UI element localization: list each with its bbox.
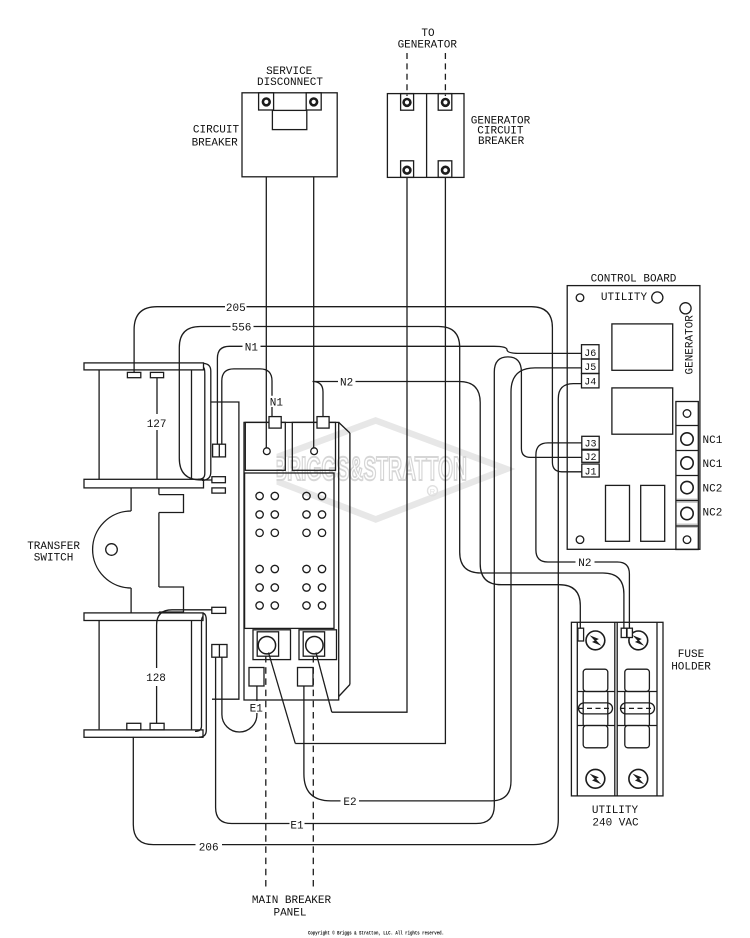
strip hole small top	[683, 410, 691, 418]
left rail line	[576, 622, 578, 796]
svg-text:206: 206	[199, 842, 219, 854]
svg-text:PANEL: PANEL	[273, 908, 306, 920]
terminal pocket left	[259, 93, 274, 110]
wire end terminal left fuse	[578, 628, 584, 641]
control board outline	[567, 286, 700, 550]
labels J6 J5 J4 J3 J2 J1	[584, 349, 596, 479]
svg-text:N2: N2	[578, 558, 591, 570]
dashed line from left lug to MAIN BREAKER PANEL	[265, 656, 267, 888]
diagonal wire right lug to gen breaker run	[316, 653, 332, 713]
wire from tab B down through 127 label	[156, 378, 158, 479]
wire service disconnect left to panel N1 circle	[265, 177, 267, 448]
svg-text:J4: J4	[584, 378, 596, 389]
svg-text:R: R	[430, 487, 436, 496]
generator circle	[680, 303, 691, 314]
wire N1 : fork to J6	[217, 346, 581, 444]
svg-text:J1: J1	[584, 467, 596, 478]
wire E1 U-loop : fork2 right leg to panel left E-stub	[222, 657, 257, 732]
coil128 shell outer	[199, 613, 206, 737]
E stub left	[249, 668, 264, 687]
svg-text:J6: J6	[584, 349, 596, 360]
dashed line from right lug to MAIN BREAKER PANEL	[312, 656, 314, 888]
fuse left window pill	[579, 703, 613, 714]
matrix holes	[256, 492, 326, 609]
svg-text:BRIGGS&STRATTON: BRIGGS&STRATTON	[273, 450, 467, 487]
TOPSECTION	[242, 53, 464, 177]
svg-text:TO: TO	[421, 28, 435, 40]
wire 205 : coil127 tabA to J1	[134, 307, 582, 472]
top block right	[292, 422, 335, 470]
gen circle TR	[442, 99, 449, 106]
svg-text:556: 556	[232, 323, 252, 335]
strip hole NC2 a	[681, 481, 693, 493]
coil 127 bottom flange	[84, 479, 204, 488]
terminal strip body	[676, 402, 698, 550]
J6 box	[582, 345, 600, 359]
screw top-left	[586, 631, 605, 650]
svg-text:HOLDER: HOLDER	[671, 662, 711, 674]
fuse left band bottom	[577, 725, 615, 727]
gen circle BL	[404, 167, 411, 174]
mount hole top-left	[576, 294, 584, 302]
J2 box	[582, 450, 599, 462]
coil 128 top flange	[84, 613, 203, 621]
svg-text:TRANSFER: TRANSFER	[27, 541, 80, 553]
screw bottom-left	[586, 769, 605, 788]
bottom rect 1	[606, 485, 630, 541]
wire N1 jumper : panel N1 stub to fork	[222, 369, 272, 444]
screw top-right	[629, 631, 648, 650]
top block left circle N1	[263, 448, 270, 455]
fuse left top cap	[583, 669, 608, 691]
coil 128 body	[99, 621, 191, 730]
pole semicircle	[93, 511, 132, 588]
top block left	[245, 422, 285, 470]
Briggs & Stratton watermark diamond ring	[245, 421, 506, 520]
wire gen breaker left terminal to right lug	[332, 177, 407, 712]
panel 3D top slant	[339, 422, 350, 433]
svg-text:CIRCUIT: CIRCUIT	[193, 125, 240, 137]
top block right circle N2	[311, 448, 318, 455]
gen pocket TL	[401, 94, 414, 111]
wire N2 : panel N2 stub to left fuse terminal	[313, 382, 581, 629]
coil 128 bottom tab A	[127, 723, 141, 730]
wire E2 : panel right E-stub to J5	[304, 368, 582, 801]
svg-text:N2: N2	[340, 378, 353, 390]
strip cell line 2	[676, 450, 698, 452]
pole step bottom	[159, 587, 184, 612]
lug circle right	[306, 637, 323, 654]
right rail line	[656, 622, 658, 796]
mount hole bottom-left	[576, 536, 584, 544]
svg-text:Copyright © Briggs & Stratton,: Copyright © Briggs & Stratton, LLC. All …	[308, 930, 444, 937]
wire service disconnect right to panel N2 circle	[313, 177, 315, 448]
gen circle TL	[404, 99, 411, 106]
lug box left outer	[253, 630, 291, 660]
FUSEHOLDER	[571, 622, 663, 796]
fuse holder outline	[571, 622, 663, 796]
svg-text:N1: N1	[245, 342, 259, 354]
svg-text:J5: J5	[584, 363, 596, 374]
coil 128 bottom flange	[84, 730, 203, 737]
svg-text:SWITCH: SWITCH	[34, 553, 74, 565]
svg-text:NC1: NC1	[703, 435, 723, 447]
svg-text:GENERATOR: GENERATOR	[398, 40, 458, 52]
J4 box	[582, 374, 600, 388]
diagonal wire left lug to gen breaker run	[269, 653, 296, 744]
wire dashed to generator (left)	[406, 53, 408, 96]
lug circle left	[258, 637, 275, 654]
WATERMARK	[245, 421, 506, 520]
coil 128 bottom tab B	[150, 723, 164, 730]
fuse right top cap	[625, 669, 650, 691]
fuse right window pill	[621, 703, 655, 714]
svg-text:FUSE: FUSE	[678, 649, 705, 661]
J3 box	[582, 436, 599, 449]
fork terminal top (double)	[213, 444, 226, 457]
panel 3D bottom slant	[339, 685, 350, 697]
generator circuit breaker box	[387, 94, 464, 178]
svg-text:UTILITY: UTILITY	[592, 805, 639, 817]
J1 box	[582, 464, 599, 477]
svg-text:E2: E2	[343, 797, 356, 809]
coil 128 side tab top	[212, 607, 226, 613]
wire dashed to generator (right)	[444, 53, 446, 96]
terminal circle right	[310, 99, 317, 106]
svg-text:E1: E1	[250, 703, 264, 715]
svg-text:MAIN BREAKER: MAIN BREAKER	[252, 895, 332, 907]
utility circle	[652, 292, 663, 303]
gen breaker divider	[426, 94, 428, 178]
wire 206 : coil128 tabA to J4	[133, 384, 581, 845]
fuse right band top	[617, 691, 657, 693]
strip cell gray band 1	[677, 499, 698, 504]
wire J3 to right fuse terminal b (N2 label)	[536, 443, 630, 628]
J5 box	[582, 359, 600, 374]
CONTROLBOARD	[567, 286, 700, 550]
fuse left band top	[577, 691, 615, 693]
terminal matrix box	[245, 473, 334, 628]
svg-text:205: 205	[226, 303, 246, 315]
coil128 shell inner	[195, 617, 203, 732]
strip hole NC1 b	[681, 457, 693, 469]
svg-text:BREAKER: BREAKER	[192, 138, 239, 150]
panel 3D back edge	[349, 433, 351, 685]
pole step top	[159, 495, 184, 513]
bottom rect 2	[641, 485, 665, 541]
PANEL	[244, 417, 350, 888]
fork terminal bottom (double)	[212, 645, 227, 658]
svg-text:BREAKER: BREAKER	[478, 136, 525, 148]
coil127 shell inner	[198, 367, 205, 479]
coil 127 top tab A	[127, 372, 140, 377]
strip cell line 1	[676, 425, 698, 427]
coil 127 side tab 1	[212, 477, 226, 483]
fuse right bottom cap	[625, 726, 650, 748]
svg-text:UTILITY: UTILITY	[601, 292, 648, 304]
relay 1	[612, 324, 673, 370]
svg-text:128: 128	[146, 673, 166, 685]
wire 556 : coil127 side tab1 to right fuse terminal a	[179, 327, 624, 629]
svg-text:NC2: NC2	[703, 484, 723, 496]
svg-text:NC1: NC1	[703, 459, 723, 471]
fuse right dashed center	[621, 707, 655, 709]
strip cell line 3	[676, 475, 698, 477]
divider rail line a	[614, 622, 616, 796]
strip cell gray band 2	[677, 524, 698, 529]
lug box left inner	[257, 632, 278, 656]
svg-text:127: 127	[147, 419, 167, 431]
svg-text:J2: J2	[584, 453, 596, 464]
loop wire around panel left	[211, 402, 239, 699]
coil 127 body	[99, 370, 191, 479]
watermark (R) mark	[428, 486, 438, 496]
panel outline	[244, 422, 339, 700]
fuse right band bottom	[617, 725, 657, 727]
strip hole small bottom	[683, 536, 691, 544]
terminal pocket right	[306, 93, 321, 110]
svg-text:J3: J3	[584, 440, 596, 451]
TRANSFERSWITCH	[84, 363, 226, 737]
wire end terminal right fuse b	[627, 628, 632, 637]
wire end terminal right fuse a	[621, 628, 626, 637]
svg-text:SERVICE: SERVICE	[266, 66, 313, 78]
divider rail line b	[616, 622, 618, 796]
center small rect	[272, 110, 306, 129]
E stub right	[298, 668, 314, 687]
coil127 shell outer	[202, 363, 211, 480]
svg-text:DISCONNECT: DISCONNECT	[257, 77, 323, 89]
gen pocket BL	[401, 161, 414, 178]
svg-text:GENERATOR: GENERATOR	[685, 315, 697, 375]
gen pocket TR	[438, 94, 452, 111]
lug box right outer	[299, 630, 337, 660]
svg-text:CONTROL BOARD: CONTROL BOARD	[591, 274, 677, 286]
N2 stub post	[317, 417, 329, 429]
strip hole NC1 a	[681, 433, 693, 445]
screw bottom-right	[629, 769, 648, 788]
strip cell line 5	[676, 525, 698, 527]
relay 2	[612, 388, 673, 434]
coil 127 top flange	[84, 363, 204, 370]
svg-text:E1: E1	[290, 821, 304, 833]
service disconnect circuit breaker box	[242, 93, 337, 177]
svg-text:NC2: NC2	[703, 508, 723, 520]
pole hole	[106, 544, 118, 556]
N1 stub post	[269, 417, 281, 429]
fuse left dashed center	[579, 707, 613, 709]
gen pocket BR	[438, 161, 452, 178]
strip hole NC2 b	[681, 507, 693, 519]
gen circle BR	[442, 167, 449, 174]
svg-text:N1: N1	[270, 398, 284, 410]
coil 127 side tab 2	[212, 488, 226, 493]
wire E1 : fork2 left leg to J2 (arch)	[216, 357, 582, 824]
fuse left bottom cap	[583, 726, 608, 748]
coil 127 top tab B	[150, 372, 163, 377]
wire from 128 side tab to bottom tab B through label	[157, 610, 212, 724]
fuse right cartridge sides	[625, 692, 650, 726]
center pole	[131, 488, 159, 613]
fuse left cartridge sides	[583, 692, 608, 726]
terminal circle left	[263, 99, 270, 106]
strip cell line 4	[676, 500, 698, 502]
svg-text:240 VAC: 240 VAC	[592, 818, 639, 830]
wire gen breaker right terminal to left lug	[295, 177, 445, 743]
lug box right inner	[303, 632, 324, 656]
